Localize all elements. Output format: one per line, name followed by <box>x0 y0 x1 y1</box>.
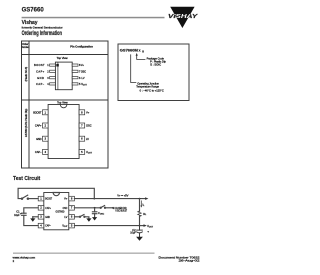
leader to package code <box>137 55 146 59</box>
svg-text:10µF: 10µF <box>14 213 20 217</box>
pin numbers <box>40 197 73 228</box>
svg-text:CAP+: CAP+ <box>35 124 42 128</box>
DIP-8 package drawing row2 <box>33 101 93 159</box>
wire RL branch lower <box>139 216 141 226</box>
svg-text:CAP+: CAP+ <box>45 206 51 210</box>
svg-text:GS7660 (8-Pin Plastic Dip): GS7660 (8-Pin Plastic Dip) <box>25 109 28 138</box>
SOIC pin1 marker <box>56 64 59 67</box>
svg-text:VOUT: VOUT <box>147 224 154 228</box>
wire pin2 CAP+ <box>24 208 38 213</box>
IC pin 5 box <box>69 223 75 228</box>
switch S1 (BOOST to V+) <box>21 195 28 199</box>
svg-text:Top View: Top View <box>57 101 68 105</box>
IC pin 2 box <box>38 206 44 211</box>
IC notch <box>53 193 59 196</box>
IC U1 GS7660 body <box>44 193 69 230</box>
ground for C2 <box>136 237 143 241</box>
svg-text:(Plastic SO-8): (Plastic SO-8) <box>25 67 28 82</box>
svg-text:GS7660: GS7660 <box>22 7 45 14</box>
IC pin 7 box <box>69 206 75 211</box>
DIP pin boxes left <box>43 110 49 155</box>
capacitor C2 <box>137 226 143 237</box>
ground for COSC <box>92 217 97 220</box>
current IL arrow <box>140 201 142 207</box>
svg-text:BOOST: BOOST <box>33 111 42 115</box>
wire pin6 LV <box>74 216 79 218</box>
svg-text:VOUT: VOUT <box>86 150 93 154</box>
svg-text:Number: Number <box>22 46 30 49</box>
wire pin8 V+ <box>74 198 146 200</box>
svg-text:LV: LV <box>86 137 89 141</box>
svg-text:GND: GND <box>45 215 50 219</box>
header rule <box>22 17 165 19</box>
wire switch to boost rail <box>18 188 94 198</box>
svg-text:www.vishay.com: www.vishay.com <box>13 256 36 260</box>
wire S2 to note <box>106 207 114 209</box>
wire pin3 GND <box>33 216 38 218</box>
svg-text:8: 8 <box>142 50 144 54</box>
svg-text:RL: RL <box>143 212 147 216</box>
svg-text:10µF: 10µF <box>130 231 136 235</box>
IC pin 3 box <box>38 215 44 220</box>
SOIC-8 package drawing row1 <box>34 56 88 89</box>
svg-text:BOOST 1: BOOST 1 <box>34 64 49 67</box>
switch S2 on OSC <box>100 206 106 209</box>
svg-text:S : SOIC: S : SOIC <box>150 63 161 66</box>
node VOUT junction <box>139 225 141 227</box>
SOIC pin stubs right <box>72 64 78 85</box>
svg-text:GS7660M: GS7660M <box>120 48 138 52</box>
svg-text:5 VOUT: 5 VOUT <box>79 83 88 86</box>
svg-text:LV: LV <box>64 215 67 219</box>
wire pin7 OSC <box>74 207 100 209</box>
wire pin5 VOUT <box>74 225 139 227</box>
svg-text:f OSC ADJUST: f OSC ADJUST <box>115 210 127 213</box>
svg-text:Top View: Top View <box>57 56 68 60</box>
node OSC / COSC junction <box>94 207 96 209</box>
SOIC inner edge line <box>57 62 59 90</box>
svg-text:OSC: OSC <box>63 206 68 210</box>
svg-text:Ordering Information: Ordering Information <box>22 31 63 37</box>
SOIC pin stubs left <box>50 64 56 85</box>
wire LV switch to ground <box>85 217 89 218</box>
switch S1b on LV <box>79 215 85 218</box>
svg-text:CAP−: CAP− <box>45 224 51 228</box>
IC pin 1 box <box>38 196 44 201</box>
ordering code decoder box <box>118 44 189 101</box>
V+ supply arrowhead <box>145 197 148 200</box>
svg-text:V+: V+ <box>64 197 68 201</box>
SOIC left pin labels <box>34 64 49 86</box>
svg-text:6 LV: 6 LV <box>79 77 85 80</box>
footer rule <box>13 253 155 254</box>
svg-text:GS7660: GS7660 <box>56 210 65 214</box>
capacitor COSC <box>92 208 97 217</box>
Vishay logo triangle <box>168 7 199 28</box>
ordering table frame <box>22 41 109 168</box>
svg-text:CAP−: CAP− <box>35 150 42 154</box>
DIP pin numbers <box>45 110 84 154</box>
svg-text:COSC: COSC <box>98 211 105 215</box>
wire C1 to pin4 CAP- <box>24 215 38 225</box>
svg-text:V+ = +5V: V+ = +5V <box>117 193 128 197</box>
svg-text:BOOST: BOOST <box>45 197 52 201</box>
svg-text:CAP− 4: CAP− 4 <box>36 83 49 86</box>
svg-text:26-Aug-02: 26-Aug-02 <box>179 259 201 263</box>
DIP body <box>48 105 79 159</box>
ground for pin3 <box>30 218 35 221</box>
DIP pin boxes right <box>79 110 85 155</box>
DIP right pin labels <box>86 111 93 155</box>
ground for LV switch <box>86 218 91 221</box>
decoder frame <box>118 44 189 101</box>
SOIC body <box>55 62 72 90</box>
svg-text:GND: GND <box>36 137 42 141</box>
capacitor C1 <box>22 213 27 215</box>
node V+ / RL junction <box>139 198 141 200</box>
svg-text:OSC: OSC <box>86 124 92 128</box>
svg-text:8 V+: 8 V+ <box>79 64 84 67</box>
resistor RL <box>138 211 142 217</box>
svg-text:V+: V+ <box>86 111 90 115</box>
SOIC right pin labels <box>79 64 88 86</box>
svg-text:GND 3: GND 3 <box>37 77 49 80</box>
svg-text:+: + <box>147 230 149 234</box>
svg-text:Temperature Range: Temperature Range <box>136 85 159 89</box>
svg-text:formerly General Semiconductor: formerly General Semiconductor <box>22 25 63 29</box>
svg-text:CAP+ 2: CAP+ 2 <box>36 70 49 73</box>
wire RL branch upper <box>139 199 141 212</box>
svg-text:0 : −40°C to +125°C: 0 : −40°C to +125°C <box>140 89 164 92</box>
svg-text:X: X <box>139 49 141 53</box>
IC pin 6 box <box>69 215 75 220</box>
IC pin 4 box <box>38 223 44 228</box>
wire pin1 to switch S1 <box>29 198 39 200</box>
svg-text:IL: IL <box>143 202 146 206</box>
svg-text:Test Circuit: Test Circuit <box>13 176 40 182</box>
svg-text:7 OSC: 7 OSC <box>79 70 86 73</box>
svg-text:Pin Configuration: Pin Configuration <box>70 44 93 48</box>
DIP left pin labels <box>33 111 42 155</box>
test circuit schematic <box>14 188 154 241</box>
DIP notch <box>60 105 67 108</box>
wire VOUT to arrow <box>140 225 145 227</box>
node boost rail / V+ wire junction <box>93 198 95 200</box>
svg-text:+: + <box>20 212 22 216</box>
IC pin 8 box <box>69 196 75 201</box>
leader to temperature range <box>131 54 137 82</box>
VOUT arrowhead <box>144 224 147 227</box>
